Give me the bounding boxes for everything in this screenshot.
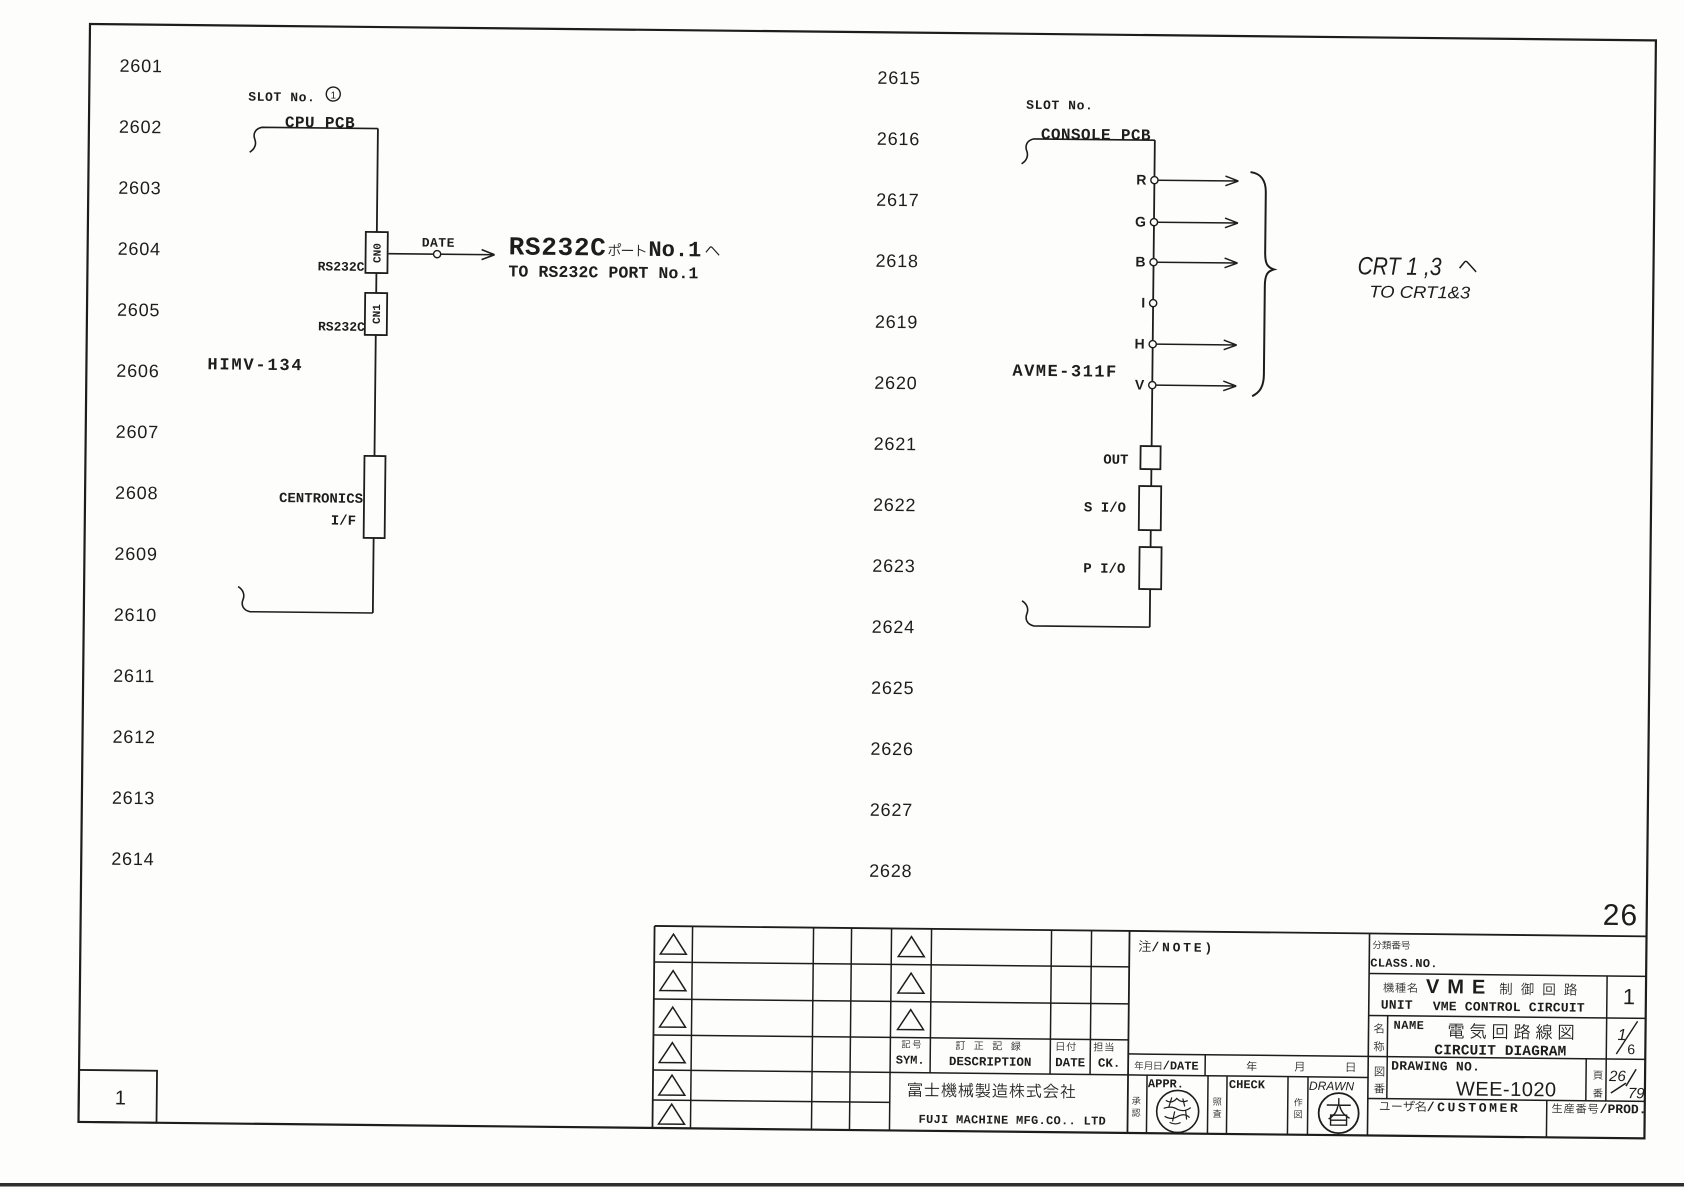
- svg-text:2605: 2605: [117, 300, 160, 320]
- stamp DRAWN seal: [1318, 1093, 1358, 1133]
- title block grid: [652, 926, 1646, 1138]
- arrow H to CRT: [1156, 339, 1236, 349]
- svg-text:月: 月: [1294, 1059, 1305, 1076]
- svg-text:UNIT: UNIT: [1381, 998, 1413, 1013]
- revision triangle right 1: [898, 937, 924, 957]
- CONSOLE PCB bracket bottom line with curl: [1022, 601, 1150, 627]
- svg-text:2611: 2611: [113, 666, 155, 686]
- svg-text:FUJI MACHINE MFG.CO.. LTD: FUJI MACHINE MFG.CO.. LTD: [918, 1113, 1106, 1129]
- svg-text:SLOT No.: SLOT No.: [248, 90, 315, 106]
- svg-text:RS232C: RS232C: [318, 319, 365, 334]
- svg-text:機種名: 機種名: [1383, 980, 1419, 997]
- pin H with terminal: [1135, 335, 1157, 351]
- revision triangle right 2: [898, 973, 924, 993]
- svg-text:B: B: [1135, 253, 1145, 269]
- svg-text:VME制御回路: VME制御回路: [1426, 976, 1586, 1001]
- svg-text:DATE: DATE: [1055, 1056, 1085, 1070]
- svg-text:2614: 2614: [111, 849, 154, 869]
- svg-text:1: 1: [115, 1087, 126, 1109]
- svg-text:2607: 2607: [116, 422, 159, 442]
- wire OUT to S I/O: [1150, 469, 1152, 486]
- svg-text:2612: 2612: [112, 727, 155, 747]
- svg-text:番: 番: [1593, 1087, 1603, 1102]
- revision triangle left 5: [659, 1075, 685, 1095]
- revision triangle left 3: [660, 1007, 686, 1027]
- svg-text:2602: 2602: [119, 117, 162, 137]
- svg-text:I/F: I/F: [331, 514, 356, 530]
- brace to CRT outputs: [1248, 172, 1275, 396]
- wire CN1 to CENTRONICS: [374, 335, 375, 456]
- svg-text:2621: 2621: [874, 434, 917, 454]
- svg-text:AVME-311F: AVME-311F: [1012, 363, 1118, 383]
- page fraction 26/79 handwritten: [1608, 1068, 1646, 1102]
- stamp APPR seal: [1156, 1090, 1198, 1132]
- svg-text:2624: 2624: [872, 617, 915, 637]
- svg-text:CONSOLE PCB: CONSOLE PCB: [1041, 126, 1151, 145]
- svg-text:認: 認: [1132, 1106, 1141, 1120]
- svg-text:番: 番: [1374, 1081, 1385, 1098]
- svg-text:2616: 2616: [877, 129, 920, 149]
- svg-text:頁: 頁: [1593, 1069, 1603, 1084]
- svg-text:26: 26: [1603, 899, 1639, 932]
- sheet number box: [79, 1070, 158, 1123]
- svg-text:2609: 2609: [114, 544, 157, 564]
- svg-text:S I/O: S I/O: [1084, 500, 1126, 516]
- svg-text:2622: 2622: [873, 495, 916, 515]
- svg-text:DRAWING NO.: DRAWING NO.: [1391, 1059, 1480, 1075]
- svg-text:2604: 2604: [118, 239, 161, 259]
- svg-text:CIRCUIT DIAGRAM: CIRCUIT DIAGRAM: [1434, 1043, 1566, 1060]
- svg-text:2628: 2628: [869, 861, 912, 881]
- svg-text:2606: 2606: [116, 361, 159, 381]
- svg-text:担当: 担当: [1093, 1041, 1115, 1056]
- svg-text:CN0: CN0: [373, 243, 385, 263]
- svg-text:称: 称: [1373, 1038, 1384, 1055]
- CPU PCB bracket bottom line with curl: [238, 587, 373, 613]
- wire CPU bus vertical: [377, 129, 378, 232]
- svg-text:VME CONTROL CIRCUIT: VME CONTROL CIRCUIT: [1433, 999, 1585, 1016]
- svg-text:G: G: [1135, 213, 1146, 229]
- svg-text:WEE-1020: WEE-1020: [1456, 1078, 1557, 1101]
- svg-text:ヘ: ヘ: [1457, 252, 1477, 282]
- slot number marker 1 in circle: [326, 87, 340, 102]
- svg-text:2626: 2626: [870, 739, 913, 759]
- svg-text:DRAWN: DRAWN: [1309, 1079, 1355, 1093]
- connector OUT: [1140, 446, 1160, 469]
- svg-text:H: H: [1135, 335, 1145, 351]
- svg-text:V: V: [1135, 376, 1145, 392]
- svg-text:2619: 2619: [875, 312, 918, 332]
- svg-text:年: 年: [1246, 1058, 1257, 1075]
- CPU PCB bracket top line with curl: [250, 127, 378, 153]
- wire DATE arrow to RS232C port: [389, 249, 495, 260]
- revision triangle left 2: [660, 971, 686, 991]
- svg-text:CK.: CK.: [1098, 1057, 1121, 1071]
- svg-text:2610: 2610: [114, 605, 157, 625]
- svg-text:年月日/DATE: 年月日/DATE: [1134, 1059, 1199, 1075]
- svg-text:SYM.: SYM.: [896, 1053, 925, 1067]
- svg-text:査: 査: [1213, 1107, 1222, 1121]
- scanner edge artifact bottom: [0, 1183, 1684, 1187]
- svg-text:名: 名: [1373, 1020, 1384, 1037]
- connector P I/O: [1139, 547, 1161, 589]
- connector CN1: [365, 293, 387, 335]
- svg-text:I: I: [1141, 295, 1145, 311]
- connector S I/O: [1139, 486, 1161, 530]
- arrow V to CRT: [1156, 380, 1236, 390]
- svg-text:2601: 2601: [119, 56, 162, 76]
- svg-text:HIMV-134: HIMV-134: [207, 356, 303, 376]
- arrow B to CRT: [1157, 257, 1237, 267]
- connector CENTRONICS I/F box: [364, 456, 386, 538]
- svg-text:2618: 2618: [875, 251, 918, 271]
- svg-text:DATE: DATE: [422, 235, 455, 250]
- svg-text:注/NOTE): 注/NOTE): [1138, 937, 1215, 958]
- revision triangle left 4: [659, 1043, 685, 1063]
- svg-text:1: 1: [330, 91, 336, 102]
- sheet fraction 1/6: [1616, 1021, 1637, 1057]
- arrow G to CRT: [1158, 217, 1238, 227]
- svg-text:2603: 2603: [118, 178, 161, 198]
- svg-text:CHECK: CHECK: [1229, 1078, 1266, 1092]
- svg-text:26: 26: [1608, 1068, 1627, 1085]
- CONSOLE PCB bracket top line with curl: [1022, 139, 1155, 165]
- wire console bus vertical: [1152, 140, 1155, 446]
- wire S I/O to P I/O: [1150, 530, 1152, 547]
- svg-text:富士機械製造株式会社: 富士機械製造株式会社: [907, 1080, 1077, 1106]
- svg-text:P I/O: P I/O: [1083, 561, 1125, 577]
- svg-text:1: 1: [1623, 984, 1636, 1009]
- svg-text:2615: 2615: [877, 68, 920, 88]
- pin I with terminal: [1141, 295, 1157, 311]
- svg-text:CLASS.NO.: CLASS.NO.: [1370, 956, 1438, 971]
- revision triangle left 6: [659, 1104, 685, 1124]
- svg-text:2620: 2620: [874, 373, 917, 393]
- svg-text:CPU PCB: CPU PCB: [285, 114, 355, 133]
- wire CN0 to CN1: [375, 273, 377, 293]
- svg-text:図: 図: [1374, 1064, 1385, 1081]
- svg-text:DESCRIPTION: DESCRIPTION: [949, 1055, 1032, 1070]
- revision triangle right 3: [898, 1010, 924, 1030]
- svg-text:図: 図: [1294, 1108, 1303, 1122]
- pin V with terminal: [1135, 376, 1156, 392]
- svg-text:SLOT No.: SLOT No.: [1026, 98, 1093, 114]
- svg-text:2625: 2625: [871, 678, 914, 698]
- svg-text:TO RS232C PORT No.1: TO RS232C PORT No.1: [508, 262, 698, 283]
- svg-text:ユーザ名/CUSTOMER: ユーザ名/CUSTOMER: [1379, 1099, 1521, 1118]
- svg-text:6: 6: [1627, 1041, 1635, 1057]
- pin R with terminal: [1136, 171, 1158, 187]
- svg-text:生産番号/PROD.: 生産番号/PROD.: [1552, 1100, 1647, 1118]
- wire below CENTRONICS: [372, 538, 375, 613]
- svg-text:CRT 1 ,3: CRT 1 ,3: [1357, 252, 1441, 281]
- svg-text:2627: 2627: [870, 800, 913, 820]
- svg-text:CN1: CN1: [372, 304, 384, 324]
- svg-text:2623: 2623: [872, 556, 915, 576]
- wire below P I/O: [1149, 589, 1151, 627]
- pin G with terminal: [1135, 213, 1158, 229]
- svg-text:分類番号: 分類番号: [1372, 939, 1411, 953]
- node on DATE wire: [433, 251, 440, 258]
- svg-text:OUT: OUT: [1103, 453, 1128, 469]
- svg-text:記号: 記号: [901, 1038, 923, 1052]
- svg-text:日: 日: [1345, 1059, 1356, 1076]
- connector CN0: [365, 232, 387, 273]
- svg-text:2613: 2613: [112, 788, 155, 808]
- pin B with terminal: [1135, 253, 1157, 269]
- svg-text:R: R: [1136, 171, 1146, 187]
- svg-text:訂 正 記 録: 訂 正 記 録: [955, 1039, 1024, 1055]
- svg-text:CENTRONICS: CENTRONICS: [279, 491, 363, 508]
- svg-text:日付: 日付: [1055, 1040, 1077, 1055]
- svg-text:2617: 2617: [876, 190, 919, 210]
- svg-text:2608: 2608: [115, 483, 158, 503]
- svg-text:TO CRT1&3: TO CRT1&3: [1369, 282, 1471, 302]
- svg-text:RS232C: RS232C: [318, 259, 365, 274]
- svg-text:APPR.: APPR.: [1148, 1077, 1184, 1091]
- revision triangle left 1: [660, 934, 686, 954]
- arrow R to CRT: [1158, 175, 1238, 185]
- svg-text:NAME: NAME: [1394, 1019, 1425, 1033]
- svg-text:79: 79: [1628, 1085, 1646, 1102]
